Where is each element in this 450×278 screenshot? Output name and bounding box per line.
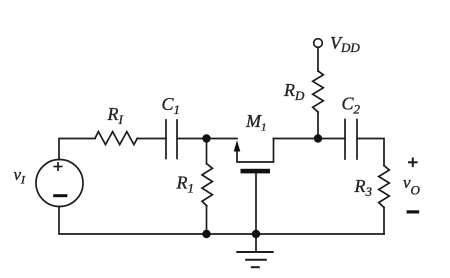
svg-text:C2: C2 bbox=[342, 94, 361, 117]
svg-text:RI: RI bbox=[107, 104, 124, 127]
plus sign output bbox=[408, 158, 418, 168]
transistor M1 channel bbox=[237, 139, 274, 163]
mosfet gate stem wire bbox=[255, 173, 257, 234]
svg-text:RD: RD bbox=[283, 80, 305, 103]
svg-text:R1: R1 bbox=[176, 173, 195, 196]
wire C2 to R3 bbox=[357, 139, 384, 166]
svg-text:VDD: VDD bbox=[330, 33, 360, 55]
resistor R_3 bbox=[379, 166, 390, 208]
ground bbox=[237, 251, 272, 253]
wire R3 to bottom rail bbox=[383, 208, 385, 235]
minus bar in source bbox=[53, 194, 67, 197]
wire drain node to RD bbox=[317, 112, 319, 139]
svg-text:vO: vO bbox=[403, 173, 421, 198]
minus bar output bbox=[407, 210, 420, 213]
svg-text:C1: C1 bbox=[162, 94, 181, 117]
wire node to R1 bbox=[206, 139, 208, 164]
capacitor C1 bbox=[165, 120, 167, 159]
bottom rail wire bbox=[207, 233, 385, 235]
capacitor C2 bbox=[344, 120, 346, 160]
plus sign in source bbox=[54, 162, 63, 171]
wire R_I to C1 bbox=[137, 138, 166, 140]
transistor M1 gate bar bbox=[241, 169, 271, 174]
node dot R1 bottom bbox=[202, 230, 210, 238]
node dot ground bbox=[252, 230, 260, 238]
wire C1 to mosfet source bbox=[177, 138, 237, 140]
resistor R_I bbox=[95, 132, 137, 145]
transistor M1 source arrow bbox=[234, 140, 241, 151]
resistor R_D bbox=[313, 71, 324, 112]
voltage source v_I bbox=[36, 160, 83, 207]
wire source bottom to rail bbox=[59, 207, 207, 235]
node dot drain bbox=[314, 134, 322, 142]
svg-text:M1: M1 bbox=[245, 111, 267, 134]
VDD terminal circle bbox=[314, 39, 323, 48]
wire source top to rail bbox=[59, 139, 95, 160]
svg-text:R3: R3 bbox=[354, 176, 373, 199]
wire RD to VDD terminal bbox=[317, 47, 319, 71]
node dot gate-side bbox=[202, 134, 210, 142]
svg-text:vI: vI bbox=[14, 165, 27, 187]
wire R1 to bottom rail bbox=[206, 206, 208, 234]
resistor R_1 bbox=[202, 164, 212, 206]
wire drain to RD node bbox=[274, 138, 346, 140]
wire ground stem bbox=[255, 234, 257, 252]
